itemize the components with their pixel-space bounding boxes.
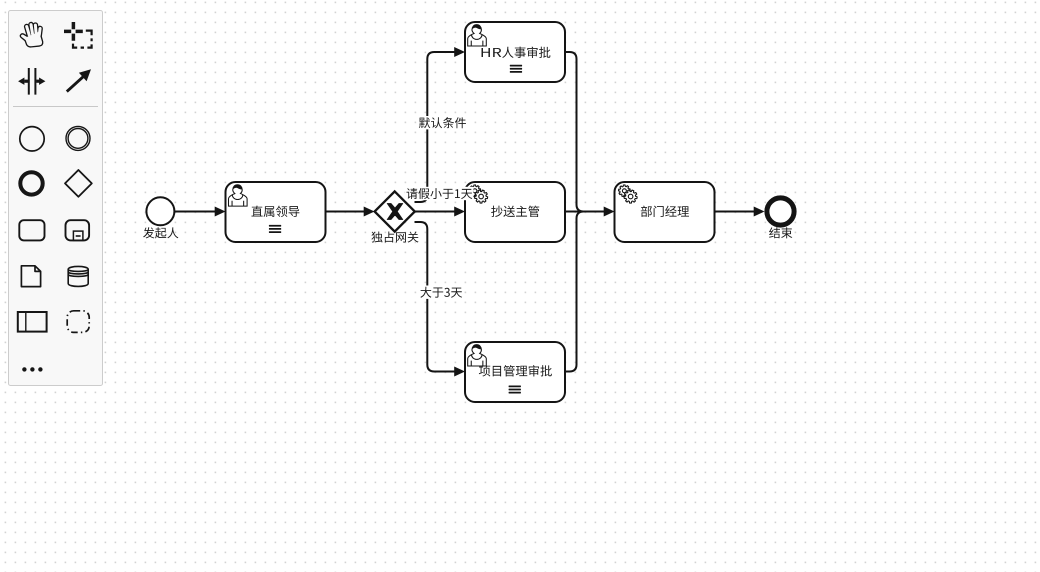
label 默认条件 [418,116,468,129]
palette: create gateway [65,170,92,197]
separator [13,106,98,108]
wire: 抄送主管 to 部门经理 [565,211,606,213]
wire: 部门经理 to end event [715,211,757,213]
palette: create data store [68,266,88,286]
palette: create group [67,311,89,333]
palette: create intermediate event [66,126,90,150]
wire: HR人事审批 to 部门经理 [565,52,606,212]
palette panel [9,11,103,386]
start event 发起人 [146,197,174,225]
wire: 项目管理审批 to 部门经理 [565,212,606,372]
wire: gateway to 项目管理审批 (label 大于3天) [415,222,457,372]
wire: 直属领导 to gateway [326,211,367,213]
service task 部门经理 [615,182,715,242]
label 请假小于1天 [405,187,473,200]
user task 项目管理审批 [465,342,565,402]
palette: lasso tool [64,22,92,48]
palette: hand tool [20,24,42,48]
label 大于3天 [419,286,463,299]
palette: create start event [20,127,44,151]
end event 结束 [767,198,794,225]
palette: create data object [21,266,40,287]
palette: more entries ... [22,367,42,371]
wire: start event to 直属领导 [174,211,217,213]
wire: gateway to HR人事审批 (label 默认条件) [415,52,457,202]
exclusive gateway 独占网关 [375,191,415,231]
palette: create pool/participant [18,312,47,332]
palette: global connect tool [67,69,91,91]
palette: create end event [20,172,42,194]
user task 直属领导 [226,182,326,242]
palette: space tool [18,68,45,95]
service task 抄送主管 [465,182,565,242]
user task HR人事审批 [465,22,565,82]
wire: gateway to 抄送主管 (label 请假小于1天) [415,211,457,213]
palette: create task [19,220,44,240]
palette: create subprocess [66,220,90,240]
